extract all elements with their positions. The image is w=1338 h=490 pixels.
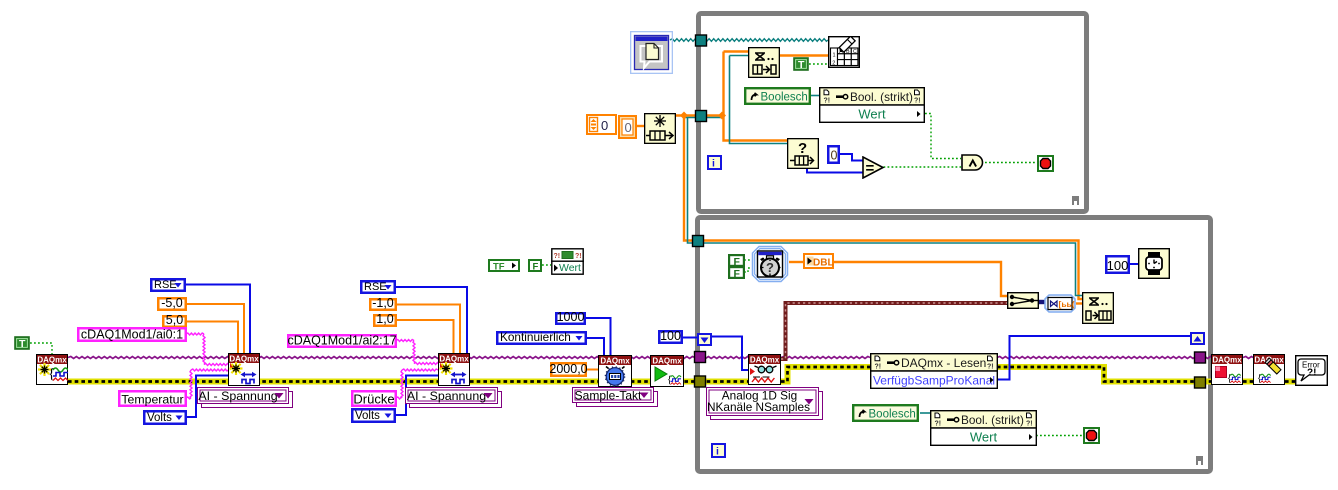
wire channel string ai0:1 seg1 <box>186 333 204 335</box>
wire Boolesch to property node 1 <box>810 95 820 97</box>
wire F2 to elapsed time <box>744 268 751 272</box>
svg-text:TF: TF <box>493 262 505 273</box>
equals comparator <box>862 156 885 179</box>
property node Bool strikt loop1 <box>819 87 925 123</box>
wire error to stop task VI <box>1202 379 1211 385</box>
wire error stop to clear task VI <box>1243 379 1253 385</box>
wire elapsed time to DBL <box>789 261 803 263</box>
wire purple read VI to property node <box>781 357 870 359</box>
wire boolean T to create task <box>30 343 52 354</box>
svg-text:100: 100 <box>1107 258 1129 273</box>
svg-text:Drücke: Drücke <box>353 392 394 407</box>
convert from dynamic data node <box>1044 294 1076 313</box>
simple error handler VI <box>1295 355 1328 386</box>
svg-text:DAQmx: DAQmx <box>750 356 780 365</box>
svg-text:?!: ?! <box>1026 421 1033 428</box>
Druecke constant <box>351 390 397 407</box>
wire queue refnum to build table <box>670 39 828 42</box>
wire Druecke string seg3 <box>402 369 438 371</box>
wire teal riser to dequeue <box>730 56 788 144</box>
100 constant main <box>658 330 683 344</box>
wire dequeue to build table <box>780 54 828 57</box>
svg-text:Bool. (strikt): Bool. (strikt) <box>961 413 1024 427</box>
svg-text:?!: ?! <box>935 421 942 428</box>
polymorphic selector AI-Spannung 2 <box>405 387 503 409</box>
svg-text:Wert: Wert <box>970 430 998 445</box>
svg-text:=: = <box>866 160 875 177</box>
-5,0 constant <box>157 297 187 311</box>
wire error property node to right tunnel <box>997 367 1196 382</box>
wire T constant to build table <box>809 63 828 65</box>
1,0 constant <box>373 314 397 327</box>
wire channel string ai0:1 seg3 <box>204 364 228 366</box>
svg-text:Volts: Volts <box>355 410 380 422</box>
svg-text:100: 100 <box>660 330 681 343</box>
svg-text:DAQmx - Lesen: DAQmx - Lesen <box>901 356 986 370</box>
wire purple property node to right tunnel <box>997 357 1196 359</box>
wire AND gate to stop terminal <box>985 162 1037 164</box>
tunnel error loop2 left <box>695 376 706 387</box>
polymorphic selector analog 1D <box>706 387 824 421</box>
wire Wert out to AND gate <box>925 114 961 159</box>
false constant F1 <box>728 254 745 267</box>
elapsed time express VI <box>751 245 789 283</box>
svg-text:Kontinuierlich: Kontinuierlich <box>500 331 571 344</box>
svg-text:F: F <box>734 268 741 279</box>
boolean TF terminal <box>488 259 520 272</box>
wire queue refnum horizontal <box>684 117 722 119</box>
svg-text:-5,0: -5,0 <box>161 297 183 310</box>
wire orange into dequeue <box>724 50 749 52</box>
5,0 constant <box>162 315 187 328</box>
svg-text:1,0: 1,0 <box>376 314 393 326</box>
true constant <box>793 57 809 71</box>
iteration terminal loop1 <box>707 155 722 170</box>
DAQmx start task VI <box>650 355 684 387</box>
true constant main <box>14 336 30 350</box>
DAQmx clear task VI <box>1253 354 1285 385</box>
Volts ring 2 <box>351 408 396 423</box>
wire Volts2 to channel VI 2 <box>396 376 438 416</box>
svg-text:AI - Spannung: AI - Spannung <box>198 389 277 403</box>
wire Druecke string seg2 <box>401 370 403 398</box>
wire -1,0 to channel VI 2 <box>396 305 460 355</box>
svg-text:DAQmx: DAQmx <box>652 357 682 366</box>
svg-text:0: 0 <box>625 120 632 135</box>
DAQmx create virtual channel VI 1 <box>228 353 260 386</box>
svg-text:C: C <box>853 49 857 55</box>
polymorphic selector AI-Spannung 1 <box>197 387 294 409</box>
wire DAQmx task purple main run <box>68 357 695 359</box>
svg-text:?!: ?! <box>824 98 831 105</box>
svg-text:2000,0: 2000,0 <box>550 362 587 376</box>
svg-text:AI - Spannung: AI - Spannung <box>407 389 486 403</box>
wire error clear to error handler <box>1285 379 1295 385</box>
wire -5,0 to channel VI 1 <box>186 304 244 355</box>
cDAQ1Mod1/ai0:1 constant <box>77 327 187 342</box>
wire 5,0 to channel VI 1 <box>186 322 238 356</box>
svg-text:1: 1 <box>833 53 836 59</box>
svg-text:i: i <box>712 158 715 170</box>
svg-text:1000: 1000 <box>557 312 585 324</box>
wire Temperatur string seg1 <box>186 397 191 399</box>
wire 1,0 to channel VI 2 <box>396 320 454 354</box>
polymorphic selector Sample-Takt <box>572 387 659 408</box>
false constant F2 <box>728 266 745 279</box>
svg-text:DAQmx: DAQmx <box>37 356 67 365</box>
wire purple to stop task VI <box>1202 357 1211 359</box>
svg-text:DAQmx: DAQmx <box>439 355 469 364</box>
wait ms VI <box>1138 248 1170 279</box>
svg-text:DAQmx: DAQmx <box>1212 356 1242 365</box>
svg-text:T: T <box>19 338 26 350</box>
merge signals node <box>1007 292 1039 309</box>
svg-text:0: 0 <box>831 149 838 163</box>
wire RSE1 to channel VI 1 <box>185 285 250 356</box>
wire Boolesch2 to property node 2 <box>920 412 930 414</box>
svg-text:-1,0: -1,0 <box>372 298 394 310</box>
1000 constant <box>555 312 586 325</box>
wire convert to enqueue <box>1076 302 1082 304</box>
svg-text:T: T <box>798 59 805 71</box>
svg-text:?!: ?! <box>554 253 561 260</box>
2000,0 constant <box>550 362 587 377</box>
svg-text:?!: ?! <box>1307 368 1316 379</box>
wire Temperatur string seg3 <box>191 369 228 371</box>
DAQmx read VI <box>748 354 781 385</box>
wire purple tunnel to read VI <box>700 357 748 359</box>
while loop 2 border <box>695 215 1213 474</box>
DBL conversion indicator <box>803 253 834 269</box>
wire error tunnel to read VI <box>700 379 748 385</box>
svg-text:DAQmx: DAQmx <box>229 355 259 364</box>
wire 100 to wait ms <box>1129 263 1138 265</box>
wire channel string ai2:17 seg2 <box>413 341 415 364</box>
svg-text:Wert: Wert <box>858 107 886 122</box>
wire Kontinuierlich to timing VI <box>586 338 604 356</box>
svg-text:Boolesch: Boolesch <box>761 92 808 104</box>
wire 2000,0 to timing VI <box>586 369 598 371</box>
wire timeout orange down to loop2 <box>684 116 1082 300</box>
wire flush queue out orange <box>676 114 722 117</box>
numeric constant 0 orange <box>618 115 637 139</box>
while loop 1 border <box>696 11 1089 214</box>
svg-text:[ьь(: [ьь( <box>1059 299 1075 309</box>
junction orange outside loop1 <box>680 112 688 120</box>
property node Bool strikt loop2 <box>930 410 1037 446</box>
flush queue node <box>644 113 676 144</box>
wire channel string ai2:17 seg3 <box>414 363 438 365</box>
wire 0 constant to flush queue <box>637 125 644 127</box>
tunnel error loop2 right <box>1195 377 1206 388</box>
DAQmx create task VI <box>36 354 68 385</box>
wire F1 to elapsed time <box>744 259 751 261</box>
wire Druecke string seg1 <box>396 397 402 399</box>
tunnel queue refnum loop1 top <box>696 35 707 46</box>
wire channel string ai0:1 seg2 <box>203 334 205 365</box>
svg-text:Wert: Wert <box>559 262 581 274</box>
svg-text:0: 0 <box>601 118 608 133</box>
svg-text:i: i <box>716 446 719 458</box>
svg-text:cDAQ1Mod1/ai2:17: cDAQ1Mod1/ai2:17 <box>287 334 396 348</box>
tunnel queue pair loop1 <box>696 111 707 122</box>
wire channel string ai2:17 seg1 <box>396 340 414 342</box>
svg-text:2: 2 <box>832 61 835 67</box>
RSE ring constant 2 <box>360 280 396 294</box>
svg-text:DBL: DBL <box>813 257 834 268</box>
Wert local variable <box>551 248 584 275</box>
shift register left <box>697 333 712 346</box>
wire queue refnum down to loop2 <box>688 118 1083 296</box>
Temperatur constant <box>118 390 187 407</box>
wire queue status to equals bottom <box>807 169 863 173</box>
shift register right <box>1190 332 1205 345</box>
tunnel task refnum loop2 left <box>695 352 706 363</box>
enqueue element node <box>1082 292 1114 324</box>
stop terminal loop2 <box>1083 427 1100 444</box>
svg-text:RSE: RSE <box>364 281 387 293</box>
svg-text:?!: ?! <box>987 364 994 371</box>
svg-text:Temperatur: Temperatur <box>121 393 183 407</box>
wire equals to AND gate <box>884 166 962 168</box>
tunnel task refnum loop2 right <box>1195 352 1206 363</box>
svg-text:?: ? <box>766 260 774 275</box>
junction orange inside loop1 <box>718 112 726 120</box>
wire samples to right shift register <box>997 336 1190 380</box>
svg-text:VerfügbSampProKanal: VerfügbSampProKanal <box>873 374 995 388</box>
stop terminal loop1 <box>1037 155 1054 172</box>
dequeue element node <box>748 47 780 78</box>
wire 0 to equals top <box>839 154 863 161</box>
wire 100 to left shift register <box>683 337 697 339</box>
wire error read VI to property node <box>781 367 870 382</box>
queue status node <box>787 138 819 169</box>
and gate <box>961 154 986 171</box>
svg-text:?: ? <box>798 140 807 157</box>
wire RSE2 to channel VI 2 <box>396 287 467 354</box>
svg-text:5,0: 5,0 <box>166 315 183 327</box>
wire teal into dequeue <box>730 55 749 57</box>
DAQmx timing VI <box>598 355 632 387</box>
svg-text:Boolesch: Boolesch <box>869 409 916 421</box>
wire error cluster main run <box>68 379 695 385</box>
numeric constant 0 blue <box>827 145 840 164</box>
build table express node <box>828 36 860 68</box>
svg-text:F: F <box>533 262 539 273</box>
Kontinuierlich ring <box>496 331 587 345</box>
cDAQ1Mod1/ai2:17 constant <box>287 334 397 348</box>
svg-text:RSE: RSE <box>154 279 177 291</box>
svg-text:NKanäle NSamples: NKanäle NSamples <box>707 400 810 414</box>
queue reference constant <box>630 31 673 74</box>
wire orange riser to dequeue <box>724 52 788 141</box>
svg-text:DAQmx: DAQmx <box>600 357 630 366</box>
svg-text:Bool. (strikt): Bool. (strikt) <box>850 90 913 104</box>
RSE ring constant 1 <box>150 278 186 292</box>
iteration terminal loop2 <box>711 443 726 458</box>
svg-text:?!: ?! <box>875 364 882 371</box>
svg-text:Sample-Takt: Sample-Takt <box>575 389 642 403</box>
wire Wert2 to stop terminal 2 <box>1036 435 1083 437</box>
DAQmx stop task VI <box>1211 354 1243 385</box>
svg-text:?!: ?! <box>914 98 921 105</box>
wire left shift register to read VI <box>712 337 748 371</box>
wire F to Wert local <box>542 264 551 266</box>
numeric control 0 <box>586 114 617 135</box>
tunnel queue pair loop2 <box>693 236 704 247</box>
false constant small <box>528 259 542 272</box>
wire 1000 to timing VI <box>585 318 611 356</box>
wire purple stop to clear task VI <box>1243 357 1253 359</box>
Volts ring 1 <box>143 410 187 425</box>
property node DAQmx Lesen <box>870 353 998 389</box>
wire waveform data read VI to merge <box>781 303 1007 359</box>
wire DBL to merge signals <box>834 262 1007 296</box>
svg-text:?!: ?! <box>575 253 582 260</box>
wire Volts1 to channel VI 1 <box>186 376 228 418</box>
svg-text:Volts: Volts <box>147 412 172 424</box>
-1,0 constant <box>369 298 397 311</box>
DAQmx create virtual channel VI 2 <box>438 353 470 386</box>
Boolesch control reference loop2 <box>852 404 919 422</box>
svg-text:cDAQ1Mod1/ai0:1: cDAQ1Mod1/ai0:1 <box>81 328 183 342</box>
wire dynamic data merge to convert <box>1039 300 1046 304</box>
100 constant loop2 <box>1105 255 1130 274</box>
Boolesch control reference loop1 <box>744 87 811 105</box>
wire Temperatur string seg2 <box>190 370 192 398</box>
